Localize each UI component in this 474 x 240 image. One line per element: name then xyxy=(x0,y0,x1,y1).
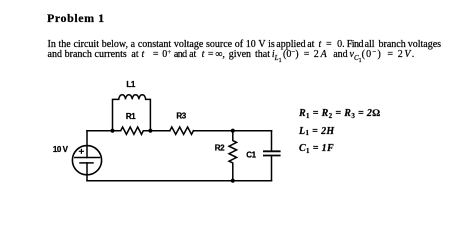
resistor R2 xyxy=(229,131,237,181)
svg-text:C1: C1 xyxy=(246,151,256,160)
svg-text:R3: R3 xyxy=(176,111,186,120)
voltage source long plate xyxy=(75,157,100,159)
paragraph xyxy=(48,40,442,60)
node D (dot bottom of R2) xyxy=(231,179,235,183)
node C (dot top of R2) xyxy=(231,129,235,133)
node A (dot left of R1) xyxy=(110,129,114,133)
voltage source V1 circle xyxy=(72,146,101,175)
resistor R3 xyxy=(170,127,194,134)
inductor L1 xyxy=(113,95,151,131)
wire top rail left (source to node A) xyxy=(87,130,113,132)
wire node B to R3 xyxy=(150,130,169,132)
svg-text:R2: R2 xyxy=(215,144,225,153)
node B (dot right of R1) xyxy=(148,129,152,133)
capacitor C1 top plate xyxy=(264,150,280,152)
svg-text:R1: R1 xyxy=(126,112,136,121)
capacitor C1 bottom lead xyxy=(271,156,273,181)
plus sign xyxy=(79,149,83,153)
resistor R1 xyxy=(113,127,151,134)
voltage source top lead into plate xyxy=(86,131,88,158)
title xyxy=(47,12,105,26)
equations xyxy=(299,105,380,158)
svg-text:L1: L1 xyxy=(126,80,135,89)
wire top rail right (R3 to C1 corner) xyxy=(194,130,272,132)
capacitor C1 bottom plate xyxy=(264,155,280,157)
voltage source bottom lead xyxy=(86,163,88,181)
voltage source short plate xyxy=(80,162,93,164)
svg-text:10 V: 10 V xyxy=(53,145,69,154)
capacitor C1 top lead xyxy=(271,131,273,152)
wire bottom rail xyxy=(87,180,272,182)
